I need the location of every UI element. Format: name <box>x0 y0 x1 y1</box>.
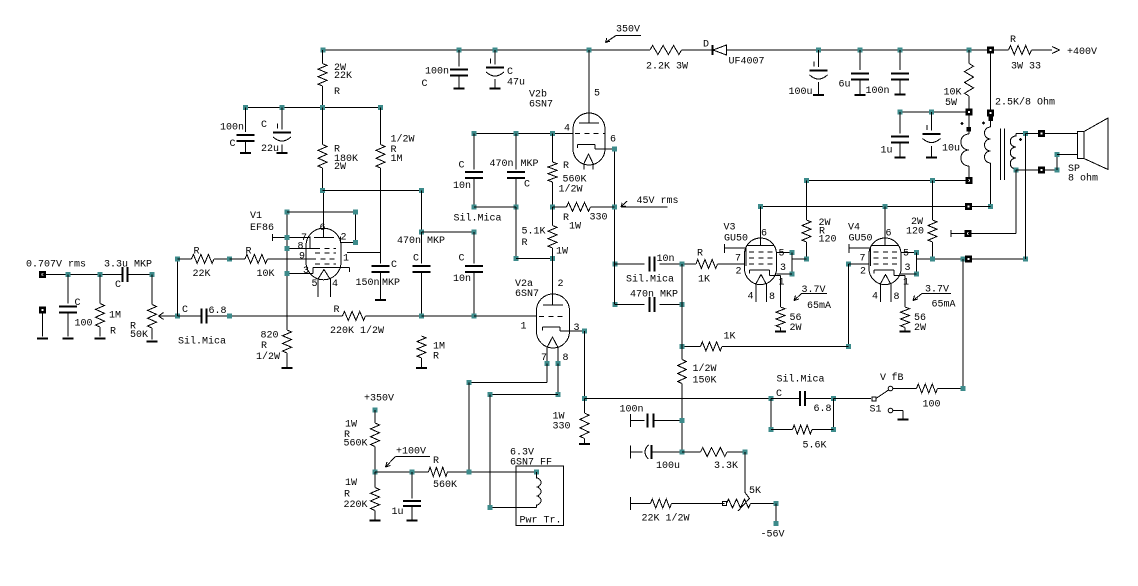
svg-text:2: 2 <box>860 267 866 278</box>
svg-text:4: 4 <box>872 292 878 303</box>
V1 pin2 wire <box>341 242 356 244</box>
V4 plate <box>884 206 886 245</box>
svg-text:820: 820 <box>261 331 279 342</box>
node rail junction D (350V) <box>587 48 592 53</box>
transformer T1 core <box>1000 129 1002 181</box>
svg-text:2W: 2W <box>914 323 926 334</box>
svg-text:10n: 10n <box>453 274 471 285</box>
svg-text:MKP: MKP <box>521 159 539 170</box>
svg-text:C: C <box>230 139 236 150</box>
svg-text:100n: 100n <box>620 405 644 416</box>
resistor 1M (input) <box>99 275 101 304</box>
svg-text:6SN7: 6SN7 <box>515 289 539 300</box>
svg-text:R: R <box>194 247 200 258</box>
wire V2a grid bus <box>230 315 343 317</box>
svg-text:C: C <box>459 161 465 172</box>
svg-text:100n: 100n <box>866 86 890 97</box>
resistor 220K 1/2W <box>343 311 366 320</box>
resistor bias feed 150K 1/2W <box>681 346 683 359</box>
capacitor C 100n (rail bypass) <box>458 50 460 67</box>
resistor 1M 1/2W (V1 g2 feed) <box>380 108 382 145</box>
wire screens UL wire <box>807 180 969 182</box>
potentiometer 50K <box>151 275 153 305</box>
V3 pin7 stub <box>724 244 726 253</box>
V1 pin7 stub with tick <box>272 234 274 241</box>
svg-text:6.8: 6.8 <box>209 306 227 317</box>
port winding2 top <box>987 110 994 117</box>
svg-text:7: 7 <box>735 254 741 265</box>
svg-text:R: R <box>334 305 340 316</box>
node 45V rms <box>612 204 617 209</box>
V3 grids <box>749 251 775 253</box>
wire secondary bottom <box>1016 169 1057 171</box>
svg-text:50K: 50K <box>130 330 148 341</box>
svg-text:3.7V: 3.7V <box>802 285 826 296</box>
potentiometer 5K (bias) <box>723 502 727 506</box>
svg-text:100u: 100u <box>656 461 680 472</box>
svg-text:100n: 100n <box>220 123 244 134</box>
tube V2a 6SN7 envelope <box>537 294 570 348</box>
capacitor 100n (V1 supply) <box>245 108 247 133</box>
svg-text:120: 120 <box>906 227 924 238</box>
node 1u top <box>898 110 903 115</box>
svg-text:1W: 1W <box>345 420 357 431</box>
wire grids bus <box>681 264 683 347</box>
svg-text:2W: 2W <box>334 162 346 173</box>
svg-text:470n: 470n <box>397 236 421 247</box>
power transformer box Pwr Tr <box>516 466 564 526</box>
svg-text:3: 3 <box>303 266 309 277</box>
node rail junction B <box>457 48 462 53</box>
svg-text:10u: 10u <box>942 144 960 155</box>
capacitor coupling 470n MKP <box>613 302 618 307</box>
transformer T1 winding 3 (secondary) <box>1016 133 1026 135</box>
svg-text:Sil.Mica: Sil.Mica <box>626 274 674 286</box>
node rail junction C <box>493 48 498 53</box>
svg-text:R: R <box>344 490 350 501</box>
svg-text:47u: 47u <box>507 78 525 89</box>
svg-text:3.3u MKP: 3.3u MKP <box>104 260 152 271</box>
svg-text:+350V: +350V <box>364 394 394 405</box>
tube V2b 6SN7 envelope <box>573 113 605 165</box>
capacitor 10u <box>931 112 933 130</box>
port winding1 bottom <box>965 177 972 184</box>
V4 pin7 stub <box>848 244 850 253</box>
wire V2b plate to rail <box>588 50 590 123</box>
svg-text:560K: 560K <box>344 439 368 450</box>
resistor V1 cathode 820 1/2W <box>283 330 292 353</box>
svg-text:+400V: +400V <box>1067 47 1097 58</box>
switch S1 V fB <box>834 398 872 400</box>
svg-text:5.1K: 5.1K <box>522 227 546 238</box>
V3 screen tie box <box>777 252 793 254</box>
resistor V4 grid 1K <box>682 345 701 347</box>
svg-text:1u: 1u <box>392 507 404 518</box>
terminal input hot <box>39 271 46 278</box>
resistor V4 screen 120 2W <box>932 181 934 220</box>
svg-text:R: R <box>697 249 703 260</box>
svg-text:GU50: GU50 <box>849 234 873 245</box>
resistor R 3W 33 <box>1009 46 1032 55</box>
tube V4 GU50 envelope <box>869 238 901 285</box>
svg-text:-56V: -56V <box>761 530 785 541</box>
svg-text:C: C <box>391 260 397 271</box>
capacitor 100n (B+ filter) <box>899 50 901 70</box>
svg-text:1/2W: 1/2W <box>693 363 717 375</box>
diode D UF4007 <box>712 45 714 55</box>
port speaker + <box>1038 130 1045 137</box>
wire V1 plate to coupling <box>323 190 422 192</box>
heater winding coil <box>534 470 539 475</box>
svg-text:8: 8 <box>894 292 900 303</box>
capacitor 100n (bias) <box>630 414 632 427</box>
node winding2 bottom <box>988 204 993 209</box>
wire pin2 loop <box>287 211 356 213</box>
resistor 5.6K (fb) <box>770 399 772 430</box>
tube V1 EF86 envelope <box>306 228 341 280</box>
svg-text:R: R <box>261 341 267 352</box>
wire fb left branch <box>177 259 179 316</box>
svg-text:22K 1/2W: 22K 1/2W <box>642 513 690 525</box>
svg-text:4: 4 <box>748 292 754 303</box>
svg-text:2: 2 <box>736 267 742 278</box>
V3 heater <box>756 275 767 285</box>
svg-text:7: 7 <box>860 254 866 265</box>
svg-text:6: 6 <box>320 223 326 234</box>
resistor 10K 5W <box>968 50 970 64</box>
label 45V rms with arrow <box>621 206 667 208</box>
svg-text:9: 9 <box>299 252 305 263</box>
V2b plate bar <box>579 122 599 124</box>
svg-text:R: R <box>1010 35 1016 46</box>
svg-text:C: C <box>459 254 465 265</box>
svg-text:350V: 350V <box>616 25 640 36</box>
svg-text:R: R <box>522 238 528 249</box>
svg-text:220K 1/2W: 220K 1/2W <box>330 325 384 337</box>
label V3 cathode current <box>794 294 802 301</box>
V3 plate <box>760 206 762 245</box>
svg-text:4: 4 <box>564 124 570 135</box>
svg-text:6: 6 <box>886 229 892 240</box>
svg-text:V: V <box>880 373 886 384</box>
wire heater pin8 route <box>557 364 559 395</box>
svg-text:R: R <box>110 327 116 338</box>
svg-text:5: 5 <box>779 249 785 260</box>
svg-text:150n: 150n <box>356 278 380 289</box>
transformer T1 winding 2 (primary) <box>990 117 992 128</box>
capacitor 6u (B+ filter) <box>859 50 861 70</box>
port plate wire link <box>965 203 972 210</box>
capacitor 3.3u MKP <box>122 267 124 282</box>
svg-text:470n MKP: 470n MKP <box>630 290 678 301</box>
svg-text:220K: 220K <box>344 500 368 511</box>
svg-text:1/2W: 1/2W <box>256 351 280 363</box>
pot wiper <box>159 315 178 317</box>
svg-text:1K: 1K <box>724 332 736 343</box>
svg-text:6SN7 FF: 6SN7 FF <box>510 458 552 469</box>
svg-text:10K: 10K <box>944 88 962 99</box>
wire UL tap node <box>900 111 969 113</box>
V1 pin1 wire <box>347 252 381 254</box>
V2b grid <box>553 133 574 135</box>
svg-text:3: 3 <box>905 263 911 274</box>
svg-text:5: 5 <box>903 249 909 260</box>
svg-text:1M: 1M <box>109 311 121 322</box>
svg-text:C: C <box>182 305 188 316</box>
svg-text:C: C <box>413 254 419 265</box>
svg-text:+100V: +100V <box>396 447 426 458</box>
capacitor 1u <box>899 112 901 133</box>
svg-text:45V rms: 45V rms <box>637 196 679 207</box>
svg-text:1u: 1u <box>881 146 893 157</box>
node 10u top <box>929 110 934 115</box>
node speaker return corner <box>1055 167 1060 172</box>
svg-text:6: 6 <box>610 135 616 146</box>
node rail junction F <box>858 48 863 53</box>
svg-text:4: 4 <box>332 279 338 290</box>
node rail junction G <box>898 48 903 53</box>
svg-text:1: 1 <box>343 254 349 265</box>
label V4 cathode current <box>913 294 922 301</box>
svg-text:7: 7 <box>541 353 547 364</box>
svg-text:65mA: 65mA <box>932 300 956 311</box>
svg-text:22K: 22K <box>193 269 211 280</box>
V1 plate <box>323 191 325 238</box>
svg-text:C: C <box>261 120 267 131</box>
speaker SP 8 ohm <box>1078 132 1085 159</box>
capacitor 470n MKP (V2b grid) <box>515 134 517 170</box>
svg-text:Pwr Tr.: Pwr Tr. <box>520 516 562 527</box>
node rail junction E <box>816 48 821 53</box>
svg-text:2: 2 <box>558 279 564 290</box>
port ground link <box>964 230 971 237</box>
wire cap bottoms <box>474 206 516 208</box>
V2a cathode <box>542 327 544 331</box>
wire feedback drop <box>962 259 964 389</box>
svg-text:MKP: MKP <box>427 236 445 247</box>
wire V2a cathode drop <box>584 331 586 399</box>
svg-text:1/2W: 1/2W <box>559 184 583 196</box>
svg-text:C: C <box>507 67 513 78</box>
svg-text:0.707V rms: 0.707V rms <box>26 260 86 271</box>
capacitor coupling 10n Sil.Mica <box>613 261 618 266</box>
resistor V3 screen 120 2W <box>806 181 808 220</box>
resistor 330 1W (V2a cathode) <box>584 399 586 414</box>
svg-text:330: 330 <box>590 213 608 224</box>
svg-text:3W 33: 3W 33 <box>1011 62 1041 73</box>
port speaker - <box>1038 166 1045 173</box>
svg-text:22u: 22u <box>261 144 279 155</box>
capacitor 10n Sil.Mica (V2b grid) <box>473 134 475 170</box>
svg-text:C: C <box>75 298 81 309</box>
svg-text:V4: V4 <box>848 223 860 234</box>
wire speaker low lead <box>1056 155 1058 170</box>
svg-text:GU50: GU50 <box>724 234 748 245</box>
svg-text:Sil.Mica: Sil.Mica <box>777 374 825 386</box>
svg-text:2.2K 3W: 2.2K 3W <box>646 62 688 73</box>
resistor 180K 2W (V1 plate load) <box>322 108 324 145</box>
svg-text:8: 8 <box>563 353 569 364</box>
wire secondary top drop <box>1025 134 1027 259</box>
resistor 100 (fb) <box>893 388 917 390</box>
resistor 560K 1W <box>374 410 376 423</box>
resistor 10K <box>230 258 246 260</box>
svg-text:C: C <box>422 79 428 90</box>
node V3 plate <box>758 204 763 209</box>
svg-text:1K: 1K <box>698 275 710 286</box>
svg-text:EF86: EF86 <box>250 223 274 234</box>
svg-text:fB: fB <box>892 372 904 384</box>
svg-text:S1: S1 <box>870 405 882 416</box>
svg-text:Sil.Mica: Sil.Mica <box>454 213 502 225</box>
wire plate supply wire <box>761 205 991 207</box>
svg-text:5W: 5W <box>945 98 957 109</box>
svg-text:2: 2 <box>341 233 347 244</box>
V2b cathode <box>577 145 579 149</box>
node V4 plate <box>883 204 888 209</box>
wire secondary top to speaker <box>1026 133 1078 135</box>
svg-text:1: 1 <box>903 278 909 289</box>
svg-text:120: 120 <box>819 235 837 246</box>
svg-text:10K: 10K <box>257 269 275 280</box>
capacitor 22u (V1 supply) <box>281 108 283 130</box>
wire V4 grid <box>846 262 851 267</box>
svg-text:100: 100 <box>923 400 941 411</box>
wire 350V B+ rail <box>323 49 650 51</box>
port rail to primary <box>987 47 994 54</box>
svg-text:6u: 6u <box>839 80 851 91</box>
svg-text:V1: V1 <box>250 211 262 222</box>
node rail junction H <box>967 48 972 53</box>
svg-text:8 ohm: 8 ohm <box>1068 173 1098 185</box>
wire V1 shield column <box>286 212 288 330</box>
svg-text:330: 330 <box>553 422 571 433</box>
resistor 3.3K <box>682 451 701 453</box>
svg-text:65mA: 65mA <box>807 301 831 312</box>
svg-text:1W: 1W <box>556 247 568 258</box>
V4 grids <box>874 251 900 253</box>
svg-text:3: 3 <box>780 263 786 274</box>
svg-text:5: 5 <box>312 279 318 290</box>
terminal -56V <box>775 504 777 524</box>
resistor 22K (fb) <box>178 258 192 260</box>
svg-text:MKP: MKP <box>382 278 400 289</box>
port winding1 top <box>966 109 973 116</box>
svg-text:UF4007: UF4007 <box>729 57 765 68</box>
svg-text:R: R <box>563 161 569 172</box>
svg-text:V3: V3 <box>724 223 736 234</box>
wire V2b grid bus <box>474 133 553 135</box>
svg-text:1: 1 <box>779 278 785 289</box>
svg-text:3: 3 <box>574 323 580 334</box>
resistor V3 grid stopper 1K <box>680 262 685 267</box>
V2a heater <box>547 337 558 348</box>
svg-text:2.5K/8 Ohm: 2.5K/8 Ohm <box>995 97 1055 109</box>
resistor 2.2K 3W <box>650 46 682 55</box>
capacitor 10n (coupling) <box>473 232 475 264</box>
svg-text:22K: 22K <box>334 71 352 82</box>
ground chassis tick <box>950 230 952 237</box>
node secondary top <box>1023 131 1028 136</box>
label +400V with arrow <box>1052 47 1060 54</box>
V1 pin3 wire <box>287 273 313 275</box>
capacitor 6.8 Sil.Mica (fb2) <box>771 398 800 400</box>
svg-text:R: R <box>433 352 439 363</box>
node V4 screen resistor top <box>930 178 935 183</box>
svg-text:R: R <box>433 456 439 467</box>
capacitor 150n MKP (g2 bypass) <box>372 265 390 267</box>
capacitor 1u (heater ref) <box>411 472 413 499</box>
resistor 5.1K 1W <box>552 207 554 226</box>
wire to bias pot wiper <box>744 452 746 493</box>
wire V3 screen to resistor <box>792 258 807 260</box>
svg-text:470n: 470n <box>490 159 514 170</box>
svg-text:1W: 1W <box>345 478 357 489</box>
V2b heater <box>584 154 594 165</box>
capacitor C 47u (rail bypass) <box>494 50 496 65</box>
V4 cathode resistor 56 2W <box>904 276 906 308</box>
svg-text:100u: 100u <box>789 87 813 98</box>
svg-text:R: R <box>246 247 252 258</box>
V1 pin8 wire <box>287 248 315 250</box>
resistor 1M (V2a grid leak) <box>417 336 426 358</box>
tube V3 GU50 envelope <box>745 238 777 285</box>
svg-text:1W: 1W <box>569 222 581 233</box>
svg-text:3.7V: 3.7V <box>925 285 949 296</box>
svg-text:5K: 5K <box>749 486 761 497</box>
resistor 22K 1/2W (bias) <box>630 497 632 510</box>
wire feedback bus <box>585 398 772 400</box>
svg-text:6SN7: 6SN7 <box>529 100 553 111</box>
capacitor 100 (input) <box>67 275 69 304</box>
svg-text:D: D <box>703 40 709 51</box>
resistor 560K (heater ref) <box>429 467 448 476</box>
wire rail to winding2 <box>990 50 992 110</box>
node fb takeoff <box>961 256 966 261</box>
svg-text:2W: 2W <box>790 323 802 334</box>
resistor V2b grid 560K 1/2W <box>548 162 557 182</box>
svg-text:5.6K: 5.6K <box>803 441 827 452</box>
wire V1 supply node <box>246 107 381 109</box>
svg-text:Sil.Mica: Sil.Mica <box>178 336 226 348</box>
resistor 330 1W (V2b cathode) <box>553 206 567 208</box>
svg-text:R: R <box>334 87 340 98</box>
terminal input ground <box>39 307 46 314</box>
svg-text:C: C <box>524 180 530 191</box>
wire heater pin7 route <box>546 364 548 383</box>
svg-text:1M: 1M <box>391 154 403 165</box>
node 560K bottom <box>550 204 555 209</box>
capacitor 470n MKP (coupling) <box>421 232 423 264</box>
V1 cathode <box>312 268 314 274</box>
port screen bus link <box>965 255 972 262</box>
wire V2b cathode column <box>614 149 616 305</box>
switch lower throw to ground <box>893 410 903 412</box>
svg-text:C: C <box>776 389 782 400</box>
svg-text:6: 6 <box>761 229 767 240</box>
node V3 screen resistor top <box>804 178 809 183</box>
svg-text:6.8: 6.8 <box>814 404 832 415</box>
V4 screen tie box <box>901 252 917 254</box>
svg-text:3.3K: 3.3K <box>714 461 738 472</box>
wire bias column <box>681 421 683 453</box>
capacitor 6.8 Sil.Mica (fb) <box>178 315 202 317</box>
capacitor 100u (B+ filter) <box>818 50 820 67</box>
wire V2a plate lead <box>552 258 554 305</box>
svg-text:10n: 10n <box>453 181 471 192</box>
V3 cathode resistor 56 2W <box>780 276 782 308</box>
node rail junction A <box>321 48 326 53</box>
